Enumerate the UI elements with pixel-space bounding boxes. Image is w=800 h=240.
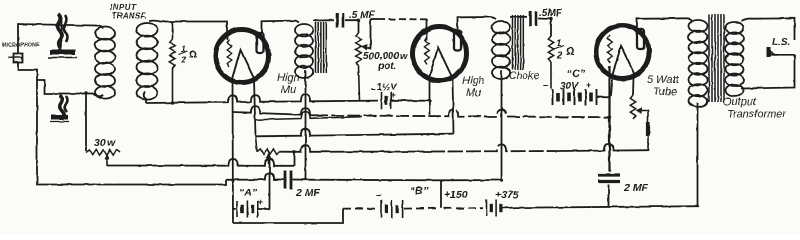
junction [84,91,87,94]
svg-text:Output: Output [723,96,757,108]
label C1 .5MF [349,10,375,21]
junction [500,178,503,181]
battery BT5 C 30V [553,89,597,105]
battery BT4 +375 [487,200,501,217]
svg-text:pot.: pot. [377,61,396,72]
label R1 1/2 ohm [179,44,198,65]
wire 1.5V cell to tube V2 filament [391,99,430,102]
wire tube V1 plate to coupling line [262,21,297,34]
svg-text:“B”: “B” [410,185,429,197]
svg-text:L.S.: L.S. [772,37,790,48]
input transformer T1 primary coil [95,27,115,99]
label +375 [495,189,519,201]
wire capacitor C3 to resistor R5 [538,19,551,37]
wire +150 feed line [306,179,502,182]
wire rheostat R2 wiper bus [107,152,294,166]
potentiometer R3 wiper arrow [361,19,370,51]
svg-text:–: – [376,190,382,201]
capacitor C4 2MF [598,175,620,182]
label R5 1/2 ohm [554,38,575,61]
svg-text:Transformer: Transformer [727,109,787,121]
svg-text:2: 2 [556,50,563,61]
svg-text:+: + [586,80,591,90]
label INPUT TRANSF. [110,3,147,21]
tube V2 filament left leg [429,78,431,115]
svg-text:–: – [543,80,549,91]
capacitor C4 bottom lead [608,185,610,207]
output transformer T2 primary bottom lead [697,103,699,206]
wire input primary circuit down to rheostat [85,93,87,151]
loudspeaker LS terminal [767,47,795,57]
potentiometer R3 500000 ohm [356,33,362,101]
tube V1 filament right leg [254,79,256,136]
junction [171,101,174,104]
output transformer T2 secondary coil [726,22,744,96]
svg-text:2 MF: 2 MF [623,182,649,194]
wire capacitor C1 to potentiometer R3 top [345,20,359,33]
wire choke L2 top to capacitor C3 [510,16,527,18]
output transformer T2 core [709,14,724,102]
svg-text:“C”: “C” [567,68,586,80]
svg-text:+150: +150 [444,189,468,201]
rheostat R4 wiper arrow [266,153,271,209]
svg-text:MICROPHONE: MICROPHONE [2,43,40,49]
label choke L2 [509,70,540,82]
capacitor C2 2MF [285,171,291,190]
junction [549,17,552,20]
svg-text:Ω: Ω [189,50,197,61]
label C2 2MF [295,187,321,199]
svg-text:High: High [462,75,485,87]
svg-text:Ω: Ω [566,46,575,58]
wire mic top to input transformer primary [18,24,103,54]
wire B+ bus to output transformer [501,206,699,208]
carbon button B2 [50,95,69,122]
label BT1 plus [390,90,395,100]
tube V3 filament right leg to rheostat [632,78,635,96]
wire B- bus from A battery to B battery [233,209,377,223]
wire C battery plus to tube V3 grid line [597,96,610,98]
wire secondary top to tube V1 grid [149,21,227,40]
wire secondary bottom tail [144,92,146,103]
output transformer T2 primary coil [688,18,708,107]
wire mic ground outer loop [18,63,284,185]
tube V1 triode [216,30,269,83]
tube V3 grid lead down [608,66,610,172]
capacitor C1 .5MF [337,13,343,28]
microphone M1 [8,54,23,63]
svg-text:+: + [390,90,395,100]
label C3 .5MF [539,8,563,19]
svg-text:w: w [107,137,116,149]
wire bus filament (V1 to V2) [256,129,454,137]
coupling choke L1 core [316,22,327,73]
svg-text:Tube: Tube [653,86,677,98]
rheostat R4 [256,136,295,154]
junction [608,116,611,119]
carbon button B1 [48,14,77,58]
battery BT1 1.5V [382,92,391,109]
choke L2 core [513,15,524,70]
label High Mu (V1) [277,72,300,96]
label C4 2MF [623,182,649,194]
label MICROPHONE [2,43,40,49]
svg-text:–: – [370,84,376,95]
capacitor C3 .5MF [531,11,537,26]
label +150 [444,189,468,201]
junction [357,19,360,22]
resistor R1 1/2 ohm [170,22,175,103]
choke L2 coil [492,17,510,79]
svg-text:30: 30 [94,137,106,149]
wire A battery connections [233,208,270,210]
wire C2 to +150 line [293,179,306,181]
label R3 500000 pot [363,51,408,72]
battery BT3 B [381,200,403,218]
svg-text:Choke: Choke [509,70,540,82]
label L.S. [772,37,790,48]
junction [231,179,234,182]
rheostat R2 wiper arrow [104,154,109,167]
wire tube V2 plate to choke L2 [458,17,493,31]
resistor R5 1/2 ohm [548,36,553,89]
wire secondary top to loudspeaker [741,18,795,40]
wire input primary bottom to mic box [37,80,103,97]
junction [292,150,295,153]
label C battery [543,68,591,92]
wire +150 tap down to B battery [440,180,442,208]
label B battery [376,185,429,201]
battery BT2 A [237,201,258,218]
choke L2 bottom lead to +150 [501,70,503,180]
wire bus C- (tube V1 filament to tube V3 grid) [233,106,610,117]
svg-text:TRANSF.: TRANSF. [112,12,147,21]
wire B battery to +150 tap [404,207,483,209]
wire R3 wiper to tube V2 grid [371,19,427,40]
input transformer T1 secondary coil [137,23,158,100]
wire filament return line to tube V3 [294,144,648,152]
wire loudspeaker to secondary bottom [741,55,795,89]
tube V3 triode [596,26,649,79]
svg-text:2 MF: 2 MF [295,187,321,199]
svg-text:w: w [400,51,408,61]
svg-text:Mu: Mu [466,87,481,99]
wire bus line3 [256,112,363,120]
rheostat R6 wiper arrow [636,108,649,152]
svg-text:Mu: Mu [281,84,296,96]
label BT1 1.5V [377,82,397,93]
svg-text:+375: +375 [495,189,519,201]
label BT1 minus [370,84,376,95]
wire bus A (input secondary to 1.5V cell) [146,95,378,104]
rheostat R6 [630,95,635,119]
tube V1 filament left leg down to A battery [232,81,235,224]
tube V3 filament left leg [610,80,613,98]
tube V2 triode [413,27,467,81]
coupling choke L1 coil [295,21,313,78]
rheostat R2 30w [86,150,120,155]
label Output Transformer [723,96,787,121]
label A battery [239,187,264,208]
wire choke L1 top to capacitor C1 [313,19,334,21]
junction [428,99,431,102]
label High Mu (V2) [462,75,485,99]
svg-text:“A”: “A” [239,187,258,199]
label 30w [94,137,116,149]
choke L1 bottom lead [305,70,307,180]
svg-text:2: 2 [181,55,187,65]
wire tube V3 plate to output transformer [637,18,689,34]
svg-text:+: + [258,197,264,208]
label 5 Watt Tube [647,74,680,98]
svg-text:5 Watt: 5 Watt [647,74,680,86]
tube V2 filament right leg [453,77,454,134]
